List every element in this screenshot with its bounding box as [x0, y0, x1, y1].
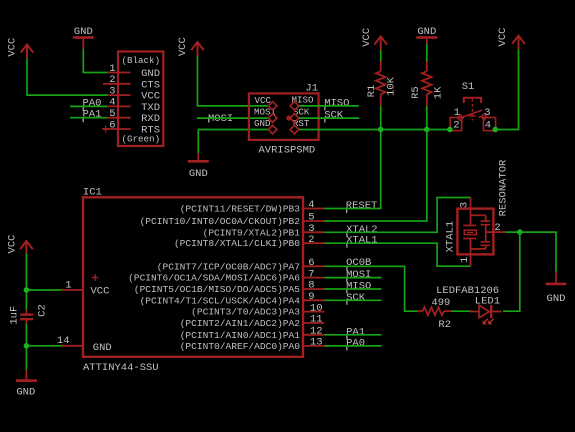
svg-text:R1: R1	[366, 85, 378, 98]
svg-text:MISO: MISO	[292, 95, 315, 106]
svg-text:R2: R2	[438, 319, 451, 331]
resonator pin 3	[459, 198, 471, 209]
IC1 pin 13	[303, 337, 324, 349]
svg-text:2: 2	[453, 119, 459, 131]
svg-text:GND: GND	[254, 118, 271, 129]
switch S1	[450, 81, 496, 131]
svg-text:1: 1	[459, 257, 471, 263]
wire VCC to connector pin 3	[27, 58, 107, 95]
svg-text:(PCINT11/RESET/DW)PB3: (PCINT11/RESET/DW)PB3	[180, 204, 301, 215]
resistor R2 499	[417, 297, 451, 331]
svg-text:MISO: MISO	[346, 281, 371, 293]
IC1 pin 5	[303, 212, 324, 224]
svg-text:TXD: TXD	[141, 102, 160, 114]
svg-text:GND: GND	[16, 387, 35, 399]
ground GND (bottom-left)	[16, 370, 37, 399]
svg-text:MOSI: MOSI	[208, 113, 233, 125]
wire SCK	[299, 117, 360, 119]
svg-text:1uF: 1uF	[8, 306, 20, 325]
wire XTAL1	[324, 243, 470, 266]
svg-text:(PCINT6/OC1A/SDA/MOSI/ADC6)PA6: (PCINT6/OC1A/SDA/MOSI/ADC6)PA6	[128, 273, 300, 284]
wire pin1 to VCC rail	[26, 289, 61, 291]
LED1 LEDFAB1206	[436, 285, 502, 324]
junction S1 pin2	[447, 127, 453, 133]
wire MISO	[299, 105, 359, 107]
connector pin 2	[103, 74, 131, 86]
wire pin5 to button net	[324, 130, 427, 222]
IC1 right-side pin labels (inside box)	[128, 204, 300, 352]
IC1 pin 11	[303, 314, 324, 326]
svg-text:VCC: VCC	[91, 286, 110, 298]
svg-text:MOSI: MOSI	[254, 107, 276, 118]
svg-text:10K: 10K	[386, 76, 398, 96]
svg-text:1: 1	[454, 107, 460, 119]
ground GND (above R5)	[416, 26, 437, 44]
supply VCC (above AVRISP)	[177, 37, 204, 56]
wire PA1 stub	[324, 334, 381, 336]
svg-text:PA0: PA0	[346, 337, 365, 349]
resonator pin 1	[459, 254, 471, 266]
svg-text:CTS: CTS	[141, 79, 160, 91]
IC1 pin 4	[303, 199, 324, 211]
resonator cap 1	[481, 215, 491, 232]
svg-text:SCK: SCK	[346, 292, 366, 304]
svg-text:SCK: SCK	[324, 109, 344, 121]
junction S1 pin4	[493, 127, 499, 133]
connector J1 AVRISPSMD	[249, 83, 319, 157]
pad J1 RST	[290, 125, 299, 134]
svg-text:AVRISPSMD: AVRISPSMD	[259, 145, 316, 157]
connector pin 5	[107, 108, 131, 120]
svg-text:ATTINY44-SSU: ATTINY44-SSU	[83, 362, 159, 374]
connector pin 3	[107, 85, 131, 97]
wire junction down to LED	[503, 232, 520, 311]
svg-text:(PCINT2/AIN1/ADC2)PA2: (PCINT2/AIN1/ADC2)PA2	[180, 318, 301, 329]
svg-text:RESET: RESET	[346, 200, 378, 212]
IC1 body	[83, 186, 303, 374]
junction R5/button	[424, 127, 430, 133]
resonator crystal symbol	[463, 209, 486, 255]
IC1 pin 9	[303, 291, 324, 303]
supply VCC (left, above C2)	[6, 235, 32, 254]
svg-text:MISO: MISO	[324, 98, 349, 110]
svg-text:GND: GND	[547, 293, 566, 305]
svg-text:RXD: RXD	[141, 113, 160, 125]
wire PA1 to connector pin 5	[70, 117, 107, 119]
IC1 pin 10	[303, 302, 324, 314]
wire RESET	[324, 130, 380, 209]
svg-text:VCC: VCC	[497, 28, 509, 47]
IC1 pin 6	[303, 257, 324, 269]
svg-text:(Black): (Black)	[121, 55, 160, 66]
wire R1 to reset net	[380, 106, 382, 130]
svg-text:(PCINT3/T0/ADC3)PA3: (PCINT3/T0/ADC3)PA3	[191, 307, 300, 318]
wire pin14 to GND rail	[26, 345, 61, 347]
svg-text:(PCINT5/OC1B/MISO/DO/ADC5)PA5: (PCINT5/OC1B/MISO/DO/ADC5)PA5	[134, 284, 300, 295]
svg-text:(PCINT1/AIN0/ADC1)PA1: (PCINT1/AIN0/ADC1)PA1	[180, 330, 301, 341]
svg-text:R5: R5	[410, 86, 422, 99]
pad J1 MOSI	[268, 114, 277, 123]
connector pin 6	[102, 119, 130, 132]
wire RST / RESET bus	[299, 129, 450, 131]
pad J1 GND	[268, 125, 277, 134]
resonator pin 2	[493, 222, 505, 234]
svg-text:4: 4	[485, 119, 491, 131]
resistor R1 10K	[366, 62, 398, 106]
svg-text:3: 3	[484, 107, 490, 119]
supply VCC (top-right)	[497, 28, 525, 50]
svg-text:(PCINT10/INT0/OC0A/CKOUT)PB2: (PCINT10/INT0/OC0A/CKOUT)PB2	[140, 216, 301, 227]
svg-text:GND: GND	[74, 26, 93, 38]
svg-text:(PCINT4/T1/SCL/USCK/ADC4)PA4: (PCINT4/T1/SCL/USCK/ADC4)PA4	[140, 295, 301, 306]
junction pin14/GND	[24, 343, 30, 349]
svg-text:11: 11	[310, 314, 323, 326]
svg-text:VCC: VCC	[361, 28, 373, 47]
ground GND (right)	[546, 272, 567, 306]
svg-text:PA1: PA1	[83, 109, 102, 121]
svg-text:(PCINT9/XTAL2)PB1: (PCINT9/XTAL2)PB1	[203, 227, 301, 238]
origin cross J1	[286, 115, 292, 121]
wire MISO stub	[324, 288, 381, 290]
IC1 pin 1 (VCC)	[62, 279, 83, 291]
wire OC0B to R2	[324, 266, 417, 311]
wire S1 pin4 to VCC	[495, 49, 518, 129]
svg-text:6: 6	[308, 257, 314, 269]
wire R5 to button net	[426, 106, 428, 130]
supply VCC (top-left)	[6, 38, 33, 59]
wire resonator pin2 to GND	[505, 232, 556, 272]
svg-text:(PCINT8/XTAL1/CLKI)PB0: (PCINT8/XTAL1/CLKI)PB0	[174, 238, 300, 249]
supply VCC (above R1)	[361, 28, 387, 50]
junction R1/reset	[378, 127, 384, 133]
wire MOSI to J1 MOSI pad	[197, 117, 268, 119]
pad J1 SCK	[290, 114, 299, 123]
svg-text:GND: GND	[417, 26, 436, 38]
svg-text:C2: C2	[36, 304, 48, 317]
resistor R5 1K	[410, 62, 445, 106]
svg-text:GND: GND	[189, 168, 208, 180]
junction resonator pin2	[517, 229, 523, 235]
svg-text:XTAL1: XTAL1	[444, 221, 456, 253]
wire SCK stub	[324, 299, 381, 301]
svg-text:3: 3	[459, 202, 471, 208]
svg-text:GND: GND	[93, 342, 112, 354]
connector pin 1	[107, 63, 131, 75]
svg-text:VCC: VCC	[6, 38, 18, 57]
ground GND (below AVRISP)	[188, 153, 209, 180]
wire R2 to LED	[451, 310, 472, 312]
svg-text:VCC: VCC	[177, 37, 189, 56]
svg-text:(PCINT7/ICP/OC0B/ADC7)PA7: (PCINT7/ICP/OC0B/ADC7)PA7	[157, 261, 300, 272]
svg-text:9: 9	[308, 291, 314, 303]
IC1 pin 3	[303, 223, 324, 235]
IC1 pin 7	[303, 268, 324, 280]
svg-text:13: 13	[310, 337, 323, 349]
svg-text:VCC: VCC	[141, 91, 160, 103]
svg-text:8: 8	[308, 280, 314, 292]
ground GND (top-left)	[73, 26, 94, 49]
svg-text:MOSI: MOSI	[346, 269, 371, 281]
capacitor C2 1uF	[8, 304, 48, 324]
wire VCC to R1	[380, 50, 382, 61]
svg-text:RTS: RTS	[141, 125, 160, 137]
wire GND to R5	[426, 44, 428, 62]
wire J1 GND pad to ground	[198, 130, 268, 154]
wire VCC down to C2	[25, 254, 27, 310]
connector J2 FTDI box	[118, 52, 163, 147]
svg-text:S1: S1	[462, 81, 475, 93]
IC1 pin 14 (GND)	[57, 335, 83, 347]
svg-text:GND: GND	[141, 68, 160, 80]
pad J1 MISO	[290, 102, 299, 111]
wire GND to connector pin 1	[83, 49, 107, 73]
svg-text:PA0: PA0	[83, 97, 102, 109]
junction pin1/VCC	[24, 287, 30, 293]
svg-text:(PCINT0/AREF/ADC0)PA0: (PCINT0/AREF/ADC0)PA0	[180, 341, 301, 352]
wire PA0 to connector pin 4	[70, 105, 107, 107]
IC1 pin 8	[303, 280, 324, 292]
svg-text:RESONATOR: RESONATOR	[498, 159, 510, 216]
wire MOSI stub	[324, 277, 381, 279]
pad J1 VCC	[268, 102, 277, 111]
svg-text:VCC: VCC	[6, 235, 18, 254]
svg-text:1K: 1K	[432, 86, 444, 99]
wire C2 to GND	[25, 324, 27, 370]
IC1 pin 12	[303, 326, 324, 338]
wire XTAL2	[324, 198, 470, 233]
resonator cap 2	[481, 232, 494, 249]
wire PA0 stub	[324, 345, 381, 347]
svg-text:499: 499	[431, 297, 450, 309]
wire VCC to J1 VCC pad	[198, 56, 269, 106]
IC1 pin 2	[303, 234, 324, 246]
svg-text:XTAL1: XTAL1	[346, 235, 378, 247]
connector pin 4	[107, 97, 131, 109]
